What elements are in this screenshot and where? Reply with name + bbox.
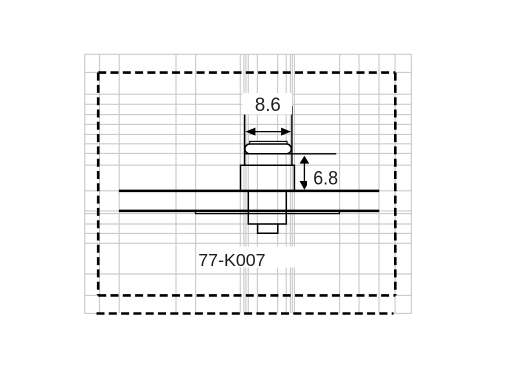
neck left side / left extension line — [244, 107, 246, 165]
svg-text:77-K007: 77-K007 — [198, 250, 265, 270]
8.6 dimension line with arrows — [245, 128, 291, 136]
flange block — [241, 165, 295, 191]
channel plate line under panel — [196, 211, 340, 214]
svg-text:6.8: 6.8 — [313, 167, 338, 189]
line under capsule extended right (6.8 extension line) — [245, 153, 337, 155]
bolt step1 bottom — [248, 223, 287, 225]
bolt tip step2 — [258, 224, 278, 233]
8.6 label box — [243, 93, 293, 115]
svg-text:8.6: 8.6 — [255, 94, 281, 116]
bolt body sides through panel — [248, 191, 286, 224]
6.8 label box — [307, 166, 338, 188]
button head capsule — [245, 144, 291, 154]
panel bottom thick line — [119, 210, 379, 213]
spreadsheet grid — [85, 54, 412, 313]
button head flat top bar — [250, 141, 287, 143]
part number label box — [197, 247, 300, 268]
panel top thick line — [119, 190, 379, 193]
neck right side / right extension line — [291, 106, 293, 165]
dashed alternate bottom line — [97, 312, 394, 315]
dashed cutout outline rectangle — [98, 73, 395, 296]
6.8 dimension line with arrows — [300, 156, 310, 190]
